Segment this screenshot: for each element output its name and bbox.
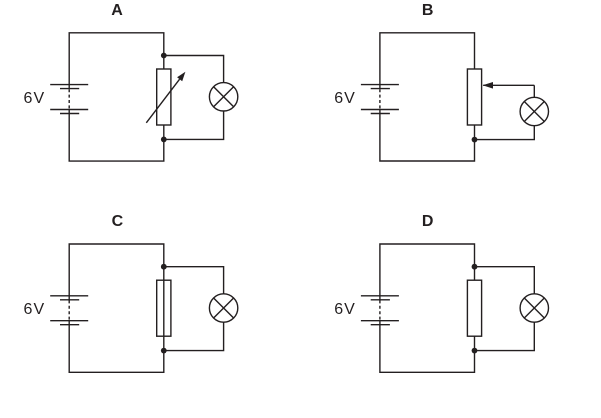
- wire (D: battery + terminal, up and across top to right branch): [380, 244, 475, 296]
- svg-text:6V: 6V: [334, 90, 356, 107]
- battery A (6 V cells): [50, 85, 88, 114]
- fixed resistor D: [467, 280, 481, 336]
- svg-text:D: D: [422, 213, 434, 230]
- svg-text:6V: 6V: [24, 90, 46, 107]
- svg-text:6V: 6V: [24, 301, 46, 318]
- potentiometer B (track): [467, 69, 481, 125]
- lamp B (circle with X): [520, 97, 548, 125]
- node A1 (top junction) (junction dot): [161, 53, 167, 59]
- wire (C: lamp branch, top node to lamp): [164, 267, 224, 294]
- svg-text:B: B: [422, 2, 434, 19]
- svg-text:A: A: [111, 2, 123, 19]
- battery D (6 V cells): [361, 296, 399, 325]
- wire (C: battery + terminal, up and across top to right branch): [69, 244, 164, 296]
- variable resistor (rheostat) A: [146, 69, 185, 125]
- svg-text:C: C: [112, 213, 124, 230]
- svg-text:6V: 6V: [334, 301, 356, 318]
- wire (A: lamp to bottom node): [164, 111, 224, 139]
- wire (D: component down to bottom node): [474, 336, 476, 350]
- node B1 (bottom junction) (junction dot): [472, 137, 478, 143]
- wire (A: battery + terminal, up and across top to right branch): [69, 33, 164, 85]
- wire (B: battery + terminal, up and across top to potentiometer top): [380, 33, 475, 85]
- wire (C: battery - terminal, down and across bottom to right branch): [69, 325, 164, 373]
- battery C (6 V cells): [50, 296, 88, 325]
- lamp C (circle with X): [209, 294, 237, 322]
- wire (D: lamp branch, top node to lamp): [475, 267, 535, 294]
- wire (B: potentiometer bottom to node): [474, 125, 476, 140]
- battery B (6 V cells): [361, 85, 399, 114]
- wire (A: component down to bottom node): [163, 125, 165, 139]
- fuse C: [157, 280, 171, 336]
- node D1 (top junction) (junction dot): [472, 264, 478, 270]
- lamp A (circle with X): [209, 83, 237, 111]
- wire (D: lamp to bottom node): [475, 322, 535, 350]
- wire (A: battery - terminal, down and across bottom to right branch): [69, 114, 164, 162]
- wire (C: lamp to bottom node): [164, 322, 224, 350]
- node A2 (bottom junction) (junction dot): [161, 137, 167, 143]
- wire (D: battery - terminal, down and across bottom to right branch): [380, 325, 475, 373]
- lamp D (circle with X): [520, 294, 548, 322]
- wiper arrow of potentiometer B: [483, 82, 535, 89]
- wire (C: straight through fuse, top node to bottom node): [163, 267, 165, 351]
- wire (A: top node down to component): [163, 56, 165, 70]
- node D2 (bottom junction) (junction dot): [472, 348, 478, 354]
- wire (B: battery - terminal, down and across bottom to node): [380, 114, 475, 162]
- node C1 (top junction) (junction dot): [161, 264, 167, 270]
- wire (B: lamp down and across to bottom node): [475, 126, 535, 140]
- wire (B: wiper across and down to lamp): [533, 85, 535, 97]
- node C2 (bottom junction) (junction dot): [161, 348, 167, 354]
- wire (D: top node down to component): [474, 267, 476, 281]
- wire (A: lamp branch, top node to lamp): [164, 56, 224, 83]
